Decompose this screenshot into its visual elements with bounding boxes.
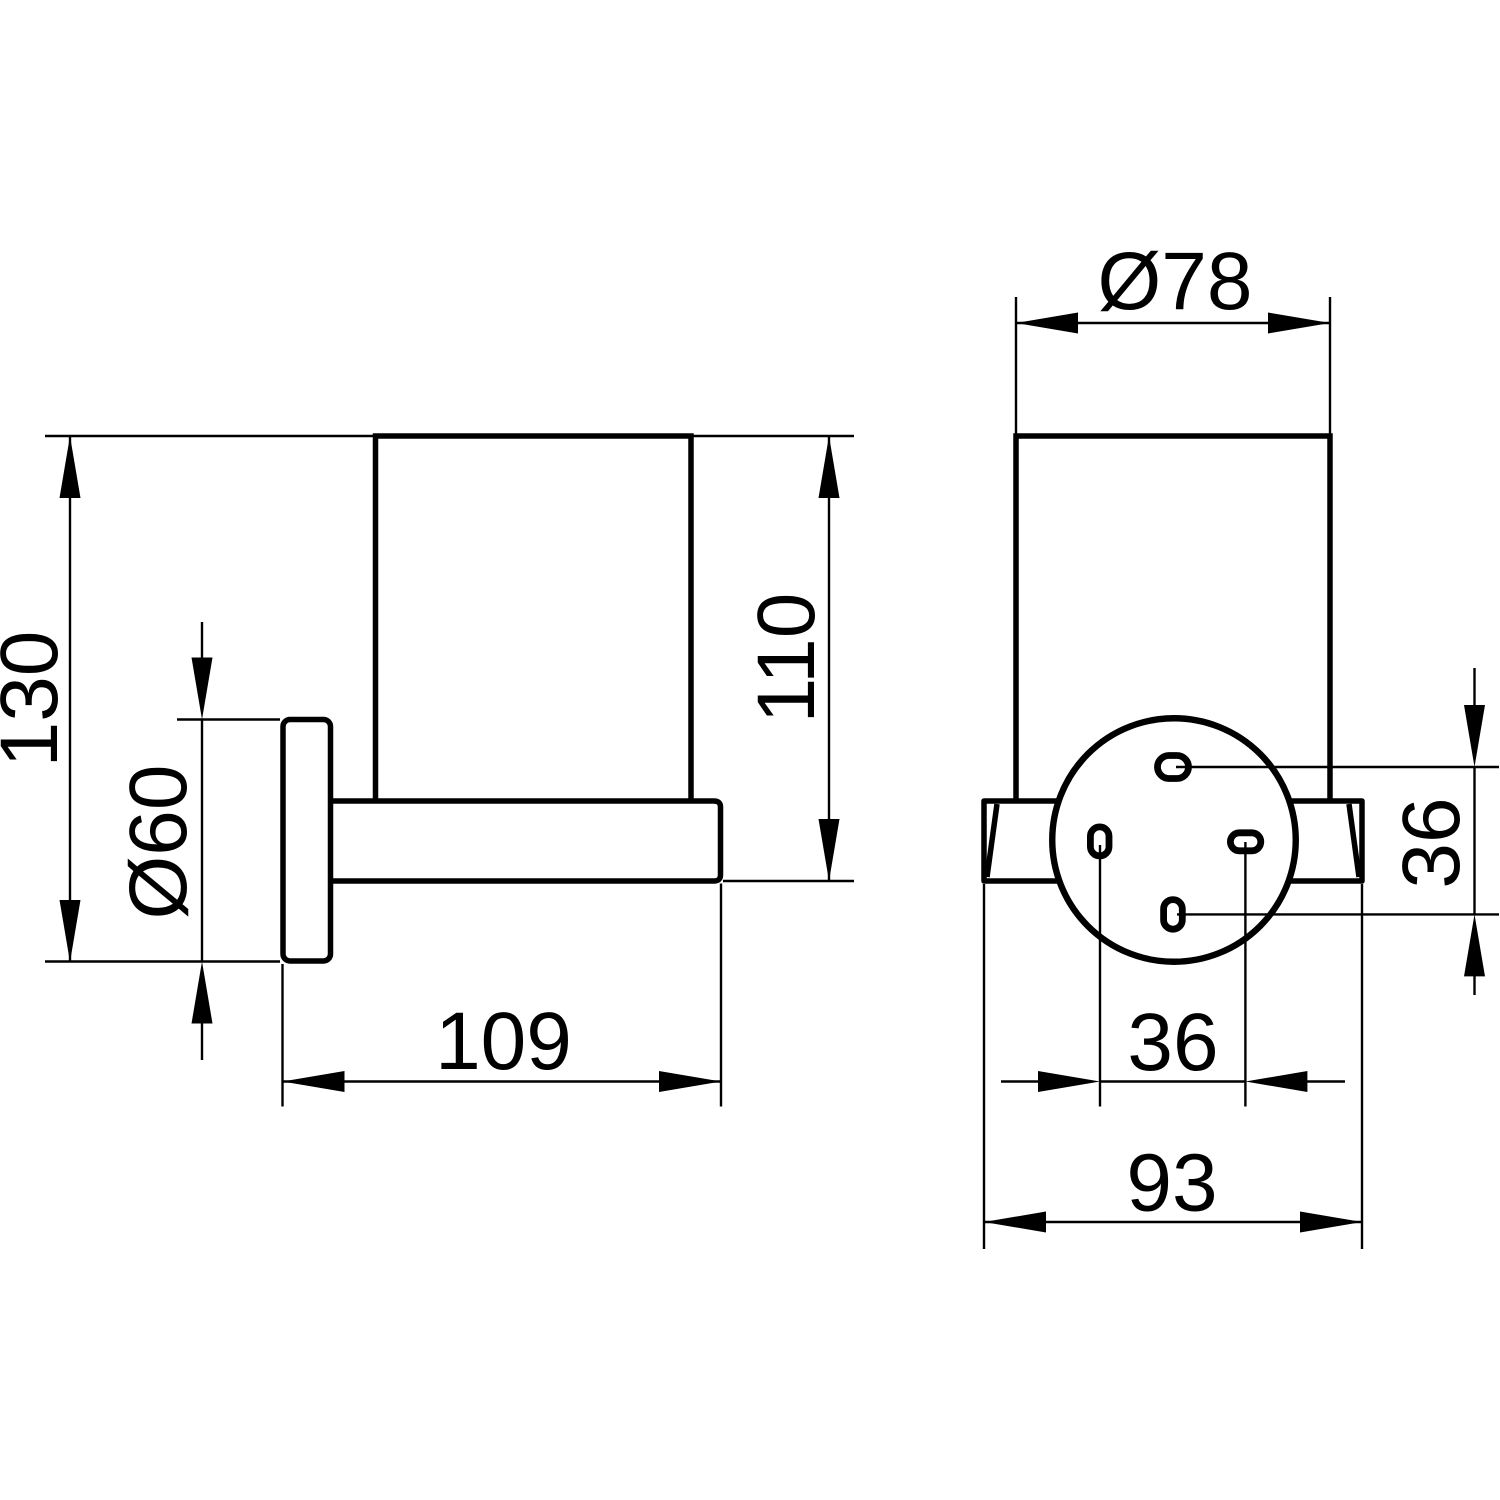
callout line from right slot downward (36 horizontal dim reference) bbox=[1244, 842, 1246, 1107]
dimension 36 vertical: lower arrow shaft bbox=[1473, 974, 1475, 995]
dimension 36 horizontal: right arrow tail bbox=[1304, 1080, 1345, 1082]
mounting slot: right (horizontal capsule) bbox=[1230, 833, 1260, 851]
mounting slot: left (vertical capsule) bbox=[1090, 827, 1109, 856]
svg-text:36: 36 bbox=[1386, 797, 1477, 888]
dimension 109: left arrowhead bbox=[283, 1071, 345, 1092]
dimension 36 vertical: upper arrowhead pointing down bbox=[1464, 705, 1485, 767]
dimension 93: right extension line (from holder ring) bbox=[1361, 884, 1363, 1249]
svg-text:110: 110 bbox=[741, 593, 832, 724]
dimension 36 horizontal: line between callouts bbox=[1100, 1080, 1245, 1082]
dimension 130: bottom arrowhead bbox=[60, 900, 81, 962]
dimension D60: upper arrowhead pointing down bbox=[192, 658, 213, 720]
dimension 36 horizontal: left arrowhead pointing right bbox=[1038, 1071, 1100, 1092]
dimension D78: left extension line above cup bbox=[1015, 297, 1017, 436]
dimension 130: top arrowhead bbox=[60, 436, 81, 498]
callout line from top slot to right (36 vertical dim reference) bbox=[1176, 766, 1499, 768]
dimension 109: right extension line (from holder) bbox=[720, 884, 722, 1107]
dimension 93: left arrowhead bbox=[984, 1212, 1046, 1233]
dimension 110: dimension line bbox=[828, 436, 830, 881]
svg-text:Ø78: Ø78 bbox=[1098, 236, 1253, 327]
dimension D78: right arrowhead bbox=[1268, 313, 1330, 334]
callout line from left slot downward (36 horizontal dim reference) bbox=[1099, 845, 1101, 1107]
svg-text:130: 130 bbox=[0, 631, 75, 768]
dimension D60: lower arrowhead pointing up bbox=[192, 962, 213, 1024]
dimension D60: upper arrow shaft bbox=[201, 622, 203, 660]
wall plate front view: circle (white filled) bbox=[1052, 718, 1296, 962]
dimension 36 vertical: upper arrow shaft bbox=[1473, 668, 1475, 708]
dimension 36 vertical: lower arrowhead pointing up bbox=[1464, 914, 1485, 976]
svg-text:109: 109 bbox=[435, 996, 572, 1087]
svg-text:93: 93 bbox=[1126, 1138, 1217, 1229]
dimension 109: right arrowhead bbox=[659, 1071, 721, 1092]
dimension 109: dimension line bbox=[283, 1080, 722, 1082]
holder arm side view: outline with rounded right corners bbox=[333, 801, 721, 881]
dimension 110: bottom arrowhead bbox=[819, 819, 840, 881]
holder ring front view: outer outline bbox=[984, 801, 1362, 881]
wall plate side view: rounded rectangle (white filled, covers holder arm left end) bbox=[283, 720, 331, 962]
dimension 36 vertical: line between callouts bbox=[1473, 767, 1475, 914]
dimension D78: dimension line bbox=[1016, 322, 1330, 324]
dimension D60: lower arrow shaft bbox=[201, 1022, 203, 1061]
dimension D78: left arrowhead bbox=[1016, 313, 1078, 334]
dimension D60: line across plate bbox=[201, 720, 203, 962]
callout line from bottom slot to right (36 vertical dim reference) bbox=[1177, 913, 1499, 915]
cup side view: outline (top, left, right edges) bbox=[376, 436, 692, 801]
dimension 130: vertical dimension line bbox=[69, 436, 71, 962]
dimension 93: dimension line bbox=[984, 1221, 1362, 1223]
mounting slot: top (horizontal capsule) bbox=[1158, 756, 1189, 779]
mounting slot: bottom (vertical capsule) bbox=[1164, 900, 1183, 930]
dimension D78: right extension line above cup bbox=[1329, 297, 1331, 436]
dimension 36 horizontal: right arrowhead pointing left bbox=[1245, 1071, 1307, 1092]
svg-text:36: 36 bbox=[1127, 997, 1218, 1088]
dimension 109: left extension line (from plate) bbox=[281, 964, 283, 1107]
dimension 93: left extension line (from holder ring) bbox=[983, 884, 985, 1249]
extension line: top of wall plate (for D60) bbox=[177, 718, 280, 720]
dimension 110: top arrowhead bbox=[819, 436, 840, 498]
extension line: top of cup, side view (for 130 and 110 dims) bbox=[45, 435, 854, 437]
dimension 93: right arrowhead bbox=[1300, 1212, 1362, 1233]
dimension 36 horizontal: left arrow tail bbox=[1001, 1080, 1042, 1082]
dimension 110: bottom extension line (from holder bottom) bbox=[723, 880, 854, 882]
holder ring front view: right inner cone edge bbox=[1349, 804, 1359, 877]
cup front view: outline (top, left, right edges) bbox=[1016, 436, 1330, 801]
extension line: bottom of wall plate, side view (for 130 and D60) bbox=[45, 960, 280, 962]
holder ring front view: left inner cone edge bbox=[987, 804, 997, 877]
svg-text:Ø60: Ø60 bbox=[113, 765, 204, 920]
